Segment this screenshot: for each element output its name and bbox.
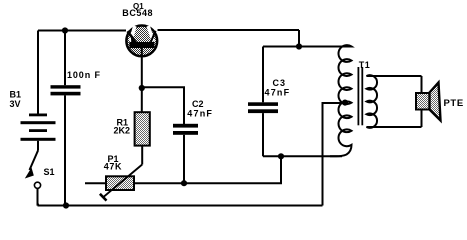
label B1 3V	[10, 90, 22, 110]
wire switch to bottom rail	[38, 188, 40, 204]
wire P1 right terminal to C2 bottom junction	[134, 182, 184, 184]
wire Q1 base lead	[141, 57, 143, 88]
wire C2 bottom lead	[183, 135, 185, 183]
wire secondary right side	[421, 76, 423, 127]
wire 100nF branch upper	[64, 31, 66, 86]
svg-text:3V: 3V	[10, 99, 21, 109]
label Q1 BC548	[122, 2, 153, 18]
svg-text:47K: 47K	[104, 162, 122, 172]
wire collector drop	[298, 30, 300, 47]
svg-text:C3: C3	[273, 78, 287, 88]
wire battery to switch	[37, 141, 39, 151]
wire R1 bottom lead	[141, 146, 143, 165]
wire P1 left terminal	[85, 182, 106, 184]
label C3 47nF	[265, 78, 291, 98]
switch S1	[25, 151, 41, 189]
label P1 47K	[104, 154, 122, 172]
piezo transducer PTE	[416, 83, 441, 121]
svg-text:C2: C2	[192, 99, 204, 109]
wire base junction to R1 top	[141, 88, 143, 112]
svg-text:T1: T1	[359, 60, 371, 70]
svg-text:BC548: BC548	[122, 8, 153, 18]
wire secondary bottom to PTE	[373, 126, 422, 128]
wire base junction to C2 top	[142, 87, 184, 124]
wire 100nF branch lower	[64, 95, 66, 205]
wire secondary top to PTE	[373, 75, 422, 77]
svg-text:47nF: 47nF	[187, 109, 213, 119]
potentiometer P1 wiper arm	[100, 165, 142, 201]
label R1 2K2	[114, 118, 131, 136]
svg-text:47nF: 47nF	[265, 88, 291, 98]
node junction base / R1 / C2	[139, 85, 145, 91]
transistor Q1	[126, 26, 157, 58]
wire Q1 collector to right	[158, 29, 300, 31]
wire junction to C3 top	[263, 46, 299, 48]
wire bottom rail riser to T1 tap	[323, 103, 345, 206]
svg-text:2K2: 2K2	[114, 125, 131, 135]
wire bottom rail	[38, 205, 323, 207]
label PTE	[444, 98, 464, 109]
wire junction to T1 primary top	[299, 46, 344, 48]
svg-text:100n F: 100n F	[67, 70, 101, 80]
node junction bottom rail / 100nF bottom	[63, 202, 69, 208]
wire C3 top lead	[262, 47, 264, 103]
node junction top rail / 100nF top	[62, 27, 68, 33]
battery B1	[21, 114, 56, 141]
wire top rail from battery to Q1 emitter	[38, 30, 126, 32]
transformer T1 primary winding	[299, 45, 352, 156]
svg-text:S1: S1	[44, 167, 55, 177]
transformer T1 core	[358, 67, 362, 125]
resistor R1	[135, 112, 150, 145]
label 100nF	[67, 70, 101, 80]
node junction C3 bottom / feedback	[278, 153, 284, 159]
label T1	[359, 60, 371, 70]
capacitor C2	[173, 124, 198, 135]
wire C3 bottom to T1 primary bottom	[263, 155, 342, 157]
node junction collector / C3 / T1 primary top	[296, 43, 302, 49]
wire C3 bottom lead	[262, 113, 264, 156]
label C2 47nF	[187, 99, 213, 119]
svg-text:B1: B1	[10, 90, 22, 100]
potentiometer P1 body	[106, 176, 134, 190]
wire junction to T1 feedback riser	[184, 156, 281, 183]
transformer T1 secondary winding	[367, 75, 401, 128]
wire battery branch upper	[37, 31, 39, 115]
label S1	[44, 167, 55, 177]
capacitor 100nF	[51, 85, 81, 95]
svg-text:PTE: PTE	[444, 98, 464, 109]
node junction T1 tap	[342, 100, 348, 106]
node junction C2 / P1 / feedback	[181, 180, 187, 186]
capacitor C3	[248, 102, 278, 113]
